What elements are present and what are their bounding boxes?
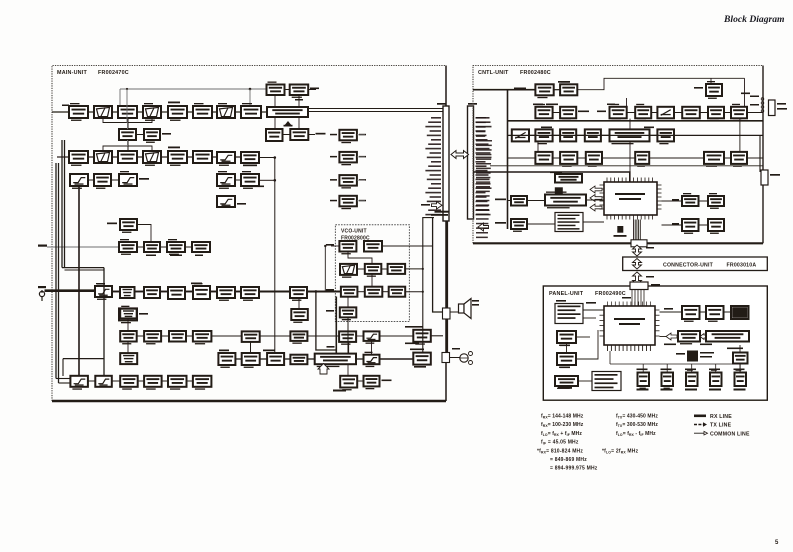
wire <box>507 90 509 229</box>
wire <box>235 358 241 360</box>
wire D6 to border <box>747 157 763 159</box>
wire corner2 <box>65 269 105 271</box>
label under row2 B8 <box>243 165 257 167</box>
wire <box>331 291 341 293</box>
label TAL SE <box>550 172 562 174</box>
wire <box>161 335 169 337</box>
svg-text:CONNECTOR-UNIT: CONNECTOR-UNIT <box>663 263 714 269</box>
label above B3 <box>263 350 275 352</box>
wire <box>576 336 590 338</box>
wire <box>235 179 241 181</box>
label SUB MC <box>558 81 570 83</box>
block key5 <box>735 370 747 387</box>
wire agc vert <box>126 89 128 123</box>
block right col SQL <box>339 152 357 165</box>
block cntl B2 <box>560 107 576 121</box>
open arrow <box>590 195 602 202</box>
filter row3 B3 <box>119 171 137 186</box>
label SP <box>472 304 479 306</box>
block cntl list box <box>555 213 583 232</box>
block row7 left <box>120 353 137 364</box>
block key matrix list <box>555 304 583 324</box>
label under L2 <box>560 345 570 347</box>
label <box>694 87 703 89</box>
wire row5 to B8 <box>259 291 290 293</box>
label under bcb4 <box>195 255 203 257</box>
label +B <box>777 103 786 105</box>
wire C5 down to bus <box>629 141 631 172</box>
block vco D1 <box>340 307 357 320</box>
block under row5 <box>291 309 308 323</box>
svg-text:fRX= 100-230 MHz: fRX= 100-230 MHz <box>541 422 584 428</box>
block LCD driver <box>678 331 700 344</box>
wire row5 to VCO <box>307 291 341 293</box>
label <box>672 199 679 201</box>
unit VCO-UNIT border <box>335 225 409 322</box>
wire xtalB down <box>298 95 300 107</box>
wire <box>88 156 94 158</box>
wire <box>357 380 363 382</box>
pin labels MAIN bar <box>425 117 441 215</box>
wire <box>64 140 66 268</box>
wire <box>298 117 300 129</box>
wire <box>382 291 388 293</box>
label right of xtal <box>310 88 319 90</box>
open arrow below TX module <box>318 364 329 375</box>
block cntl B3 <box>610 104 627 121</box>
wire <box>260 335 291 337</box>
label LG GR <box>556 300 566 302</box>
wire L2-L3 <box>566 343 568 353</box>
open arrow <box>590 186 602 193</box>
label out <box>359 200 366 202</box>
wire <box>127 318 129 331</box>
wire AGC top <box>120 88 267 90</box>
legend COMMON LINE <box>694 432 704 434</box>
amp row2 B4 <box>143 151 161 166</box>
label below key5 <box>734 389 746 391</box>
label above key2 <box>661 369 672 371</box>
label AT MIC <box>741 93 750 95</box>
wire VCO D1 down to TX module <box>347 317 349 353</box>
block row1 B5 1st mixer <box>168 106 187 121</box>
filter row7 B5 <box>364 352 380 367</box>
wire cpu to G3 <box>662 224 683 226</box>
wire vco loop down B <box>335 297 337 354</box>
wire <box>586 199 604 201</box>
label left F1 <box>495 199 506 201</box>
wire <box>78 186 80 376</box>
label row4 <box>237 203 246 205</box>
bus line A <box>308 108 443 110</box>
spacer <box>357 179 443 181</box>
connector tab mic <box>442 353 450 363</box>
wire row2 in <box>57 156 69 158</box>
block DC-DC <box>706 81 722 99</box>
legend RX LINE <box>694 414 706 417</box>
open arrow to LCD driver <box>666 333 677 340</box>
filter row3 B4 <box>217 171 235 189</box>
connector pass-through top <box>630 282 648 290</box>
junction <box>422 268 424 270</box>
bus into panel IC <box>632 290 644 307</box>
block vco C3 <box>389 287 406 297</box>
wire row2 fb <box>103 146 152 151</box>
block above row6 <box>120 306 137 319</box>
block row2 B8 <box>241 152 259 166</box>
wire rowD in <box>508 157 536 159</box>
label AF out <box>316 133 326 135</box>
block vco C1 <box>341 287 358 297</box>
bus mic thick <box>45 289 96 292</box>
wire elbow row8b <box>59 382 71 384</box>
block RF amp row1 B1 <box>69 103 88 121</box>
wire row1 feedback <box>103 118 152 123</box>
block key1 <box>638 373 650 389</box>
wire thin cntl <box>490 165 763 167</box>
wire to mic <box>450 357 460 359</box>
wire <box>553 157 561 159</box>
wire <box>699 200 709 202</box>
block cntl A2 <box>560 81 577 95</box>
block row5 B7 <box>241 287 259 301</box>
label below AF <box>405 343 419 345</box>
block cntl B1 <box>535 104 552 119</box>
wire <box>135 291 145 293</box>
wire y358 <box>63 358 104 360</box>
wire <box>357 268 365 270</box>
wire <box>285 89 290 91</box>
wire to vco C3 <box>405 291 423 293</box>
wire <box>651 112 657 114</box>
block panel L4 <box>555 376 578 389</box>
block cntl D1 <box>535 152 552 164</box>
wire <box>627 112 636 114</box>
block row1 B8 <box>241 103 261 118</box>
label DET <box>541 127 552 129</box>
block vco A1 <box>339 241 356 254</box>
spacer <box>357 200 443 202</box>
wire vco mid <box>371 274 373 287</box>
svg-text:RX LINE: RX LINE <box>710 414 732 420</box>
block panel L3 <box>557 353 576 368</box>
wire <box>210 291 217 293</box>
block row6 B6 <box>290 331 307 343</box>
wire <box>137 246 144 248</box>
label <box>326 289 334 291</box>
black component below E1 <box>555 187 563 194</box>
label <box>777 108 787 110</box>
label <box>546 104 558 106</box>
block row2 B6 <box>193 151 212 163</box>
wire bar-speaker <box>433 218 444 312</box>
block row8 B4 <box>144 376 162 390</box>
label <box>284 125 293 127</box>
connector tab right SP <box>769 100 776 116</box>
label vco in <box>326 244 334 246</box>
label in <box>330 179 337 181</box>
wire rowC down to MIC tab <box>759 135 761 172</box>
block cntl A1 <box>535 84 553 98</box>
label <box>700 356 712 358</box>
label 8ohm <box>472 300 479 302</box>
wire row3 out <box>259 179 275 181</box>
wire <box>357 200 365 202</box>
svg-text:CNTL-UNIT: CNTL-UNIT <box>478 70 509 76</box>
label right <box>578 111 589 113</box>
block row8 R2 <box>364 376 380 390</box>
label left F2 <box>495 222 506 224</box>
wire <box>724 112 731 114</box>
junction <box>126 88 128 90</box>
wire <box>724 157 731 159</box>
wire elbow row8a <box>56 378 70 380</box>
wire vco A2 out <box>382 245 433 247</box>
wire xtalA down <box>274 95 276 107</box>
wire to mic amp <box>380 358 414 360</box>
svg-text:5: 5 <box>775 540 779 546</box>
wire <box>356 358 364 360</box>
junction <box>41 290 43 292</box>
open arrow <box>590 204 602 211</box>
label <box>700 344 712 346</box>
wire <box>185 291 193 293</box>
wire <box>212 111 217 113</box>
block row6 B5 <box>242 331 260 342</box>
wire AF to conn <box>431 335 443 337</box>
block row1 B3 <box>118 106 137 118</box>
wire <box>700 112 708 114</box>
open arrow bottom left bar <box>432 202 443 210</box>
svg-text:Block Diagram: Block Diagram <box>723 14 785 25</box>
bus cntl horizontal <box>508 120 764 122</box>
wire vco down <box>347 297 349 308</box>
wire x104 down <box>103 268 105 376</box>
label above key4 <box>709 369 720 371</box>
block row5 B2 <box>120 287 135 298</box>
wire <box>307 335 339 337</box>
block cntl B6 <box>682 107 700 119</box>
label 45.05 <box>533 104 543 106</box>
label MIC <box>38 286 46 288</box>
block key4 <box>710 370 722 387</box>
svg-text:FR003010A: FR003010A <box>727 263 757 269</box>
wire <box>274 158 276 355</box>
wire row6 B7 down to TX module <box>348 342 350 354</box>
wire <box>187 156 193 158</box>
stub <box>565 194 567 195</box>
amp row1 B2 <box>94 106 112 118</box>
label <box>664 308 673 310</box>
svg-text:fLO= fRX - fIF MHz: fLO= fRX - fIF MHz <box>616 431 656 437</box>
unit MAIN-UNIT border <box>52 66 446 402</box>
label <box>597 111 606 113</box>
svg-text:fIF = 45.05 MHz: fIF = 45.05 MHz <box>541 440 579 446</box>
block cntl B5 <box>657 107 674 119</box>
wire <box>739 364 741 373</box>
microphone icon <box>460 352 473 365</box>
filter row6 B8 <box>364 331 380 343</box>
block vco A2 <box>364 241 382 252</box>
wire <box>137 156 143 158</box>
wire <box>527 223 555 225</box>
wire <box>650 134 658 136</box>
connector tab CNTL bottom <box>631 240 647 247</box>
block cntl E1 wide <box>555 174 582 183</box>
wire row6 B5 down to row7 B2 <box>250 342 252 353</box>
block mic amp <box>413 353 431 368</box>
wire to speaker <box>450 311 459 313</box>
wire <box>577 157 586 159</box>
label under bcb2 <box>146 255 156 257</box>
wire B4 to C5 <box>629 119 631 130</box>
label out <box>359 134 366 136</box>
block cntl D5 <box>704 152 724 167</box>
wire midL1 to row2B3 <box>127 140 129 151</box>
label above mic amp <box>410 349 424 351</box>
block vco B3 <box>388 264 406 274</box>
svg-text:FR002480C: FR002480C <box>520 70 551 76</box>
label out <box>359 156 366 158</box>
wire <box>112 291 120 293</box>
block panel R3 <box>731 306 749 319</box>
wire <box>58 163 60 383</box>
filter row5 B1 <box>95 283 112 300</box>
block bcb1 <box>119 239 137 255</box>
unit PANEL-UNIT border <box>543 286 767 400</box>
wire B8-D6 <box>739 119 741 152</box>
svg-text:MAIN-UNIT: MAIN-UNIT <box>57 70 87 76</box>
label row1 input <box>62 105 69 107</box>
junction <box>249 88 252 91</box>
label below <box>253 186 264 188</box>
wire <box>357 291 364 293</box>
wire vco <box>348 252 372 264</box>
label mic conn <box>452 348 460 350</box>
block ref osc <box>120 219 137 233</box>
block cntl C1 att <box>512 129 529 141</box>
wire stub <box>62 359 64 376</box>
wire <box>660 336 667 338</box>
label <box>139 313 148 315</box>
label in <box>330 156 337 158</box>
IC panel main <box>600 302 660 352</box>
wire C2-D1 vertical <box>537 141 539 152</box>
block cntl C2 <box>535 129 552 144</box>
vertical double arrow <box>633 272 642 285</box>
label dark under L4 <box>558 387 572 389</box>
label above key1 <box>637 369 648 371</box>
wire <box>161 156 168 158</box>
wire row1B3 to midL1 <box>127 118 129 129</box>
wire <box>137 111 143 113</box>
wire <box>601 134 610 136</box>
block cntl G2 <box>708 193 724 209</box>
block cntl B8 <box>731 104 747 121</box>
block row5 B3 <box>144 287 160 298</box>
label near loop <box>327 346 335 348</box>
wire <box>529 134 535 136</box>
label <box>514 88 526 90</box>
wire <box>347 365 349 376</box>
label <box>750 104 759 106</box>
wire <box>161 111 168 113</box>
black component under CPU <box>617 226 623 233</box>
label AT <box>607 104 615 106</box>
wire ATMC down <box>626 98 628 107</box>
filter row8 B1 <box>70 376 88 390</box>
bus CPU to panel <box>634 220 641 244</box>
spacer <box>606 351 608 372</box>
wire <box>553 112 561 114</box>
label <box>622 297 631 299</box>
block row6 B3 <box>169 331 186 342</box>
filter row3 B1 <box>70 174 88 189</box>
block cntl G1 <box>682 193 699 206</box>
speaker icon <box>459 299 472 319</box>
label <box>646 247 654 249</box>
vertical double arrow <box>633 245 642 256</box>
spacer <box>713 71 715 79</box>
block row7 B3 <box>267 353 284 365</box>
label above bar L <box>437 103 446 105</box>
label mid L2 out <box>162 133 171 135</box>
svg-text:VCO-UNIT: VCO-UNIT <box>341 229 367 235</box>
block AF amp <box>413 330 431 345</box>
wire BCB gray <box>47 246 119 248</box>
label under L3 <box>560 367 570 369</box>
amp row2 B2 <box>94 151 112 163</box>
wire <box>187 111 193 113</box>
block mid L2 <box>144 129 160 143</box>
spacer <box>308 88 443 90</box>
wire <box>61 140 63 268</box>
wire <box>112 380 120 382</box>
block row3 B2 <box>94 174 111 189</box>
connector tab right MIC <box>761 170 768 185</box>
wire <box>88 380 95 382</box>
IC CPU CNTL <box>600 178 662 220</box>
wire rowA top bus <box>577 78 744 89</box>
svg-text:fLO= fRX + fIF MHz: fLO= fRX + fIF MHz <box>541 431 582 437</box>
wire <box>660 311 683 313</box>
block cntl D2 <box>560 152 577 167</box>
wire <box>508 200 512 202</box>
block cntl left F2 <box>511 219 527 232</box>
wire row2 out <box>259 157 275 159</box>
wire <box>162 380 168 382</box>
label between <box>295 99 303 101</box>
spacer <box>722 89 763 91</box>
block row6 B4 <box>193 331 212 344</box>
block row2 B5 2nd mixer <box>168 151 187 166</box>
block row5 B4 <box>168 287 185 299</box>
unit CONNECTOR-UNIT border <box>623 257 768 271</box>
wire <box>88 111 94 113</box>
wire <box>739 345 741 353</box>
label below key3 <box>685 389 697 391</box>
label <box>644 127 654 129</box>
wire L4 to backlight <box>578 380 592 382</box>
block row5 B5 <box>193 283 210 299</box>
block vco C2 <box>365 287 383 297</box>
wire <box>212 156 217 158</box>
svg-text:FR002470C: FR002470C <box>98 70 129 76</box>
label below mic amp <box>414 366 426 368</box>
wire down to row1 <box>249 89 251 106</box>
label right of row8 R2 <box>382 380 392 382</box>
wire <box>235 156 241 158</box>
